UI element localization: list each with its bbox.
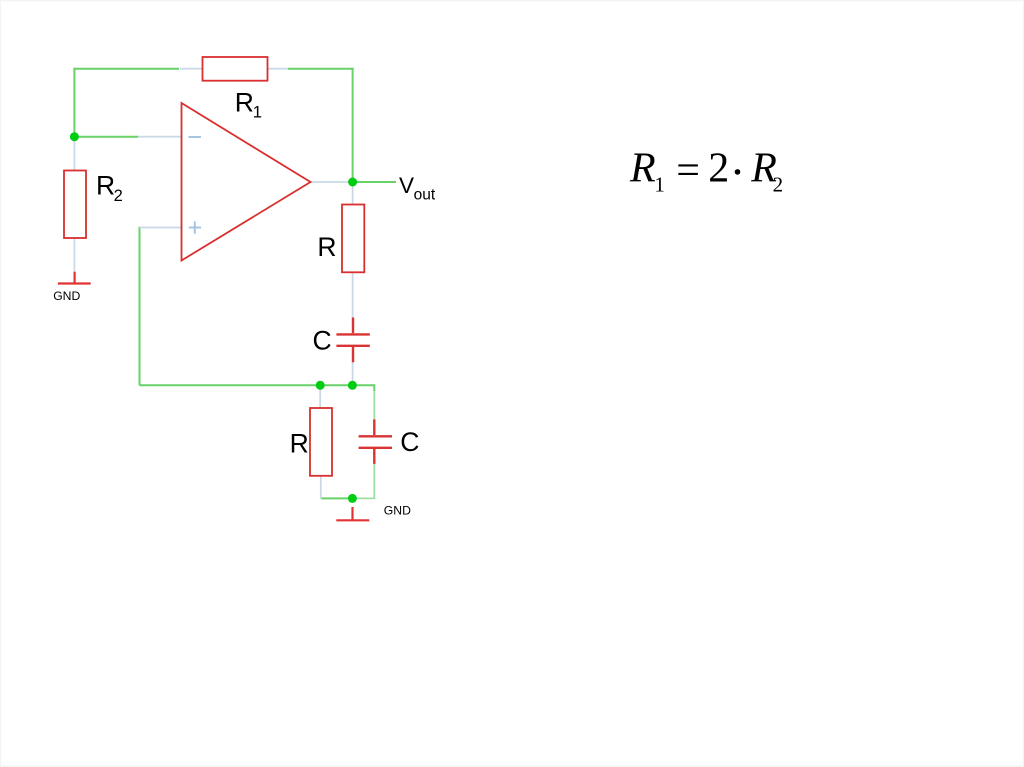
svg-text:out: out	[414, 187, 436, 204]
svg-text:R: R	[290, 428, 309, 458]
svg-text:GND: GND	[384, 504, 411, 518]
svg-text:2: 2	[114, 187, 123, 205]
svg-text:R: R	[629, 146, 656, 192]
svg-text:GND: GND	[53, 289, 80, 303]
svg-text:C: C	[400, 427, 419, 457]
svg-text:1: 1	[253, 103, 262, 122]
svg-text:C: C	[313, 325, 332, 355]
svg-text:R: R	[235, 88, 254, 118]
svg-text:2: 2	[773, 172, 784, 196]
svg-text:V: V	[399, 173, 414, 198]
svg-text:R: R	[96, 171, 115, 201]
svg-text:2: 2	[708, 146, 729, 192]
svg-text:=: =	[676, 148, 700, 194]
svg-text:1: 1	[654, 172, 665, 196]
svg-text:R: R	[317, 232, 336, 262]
